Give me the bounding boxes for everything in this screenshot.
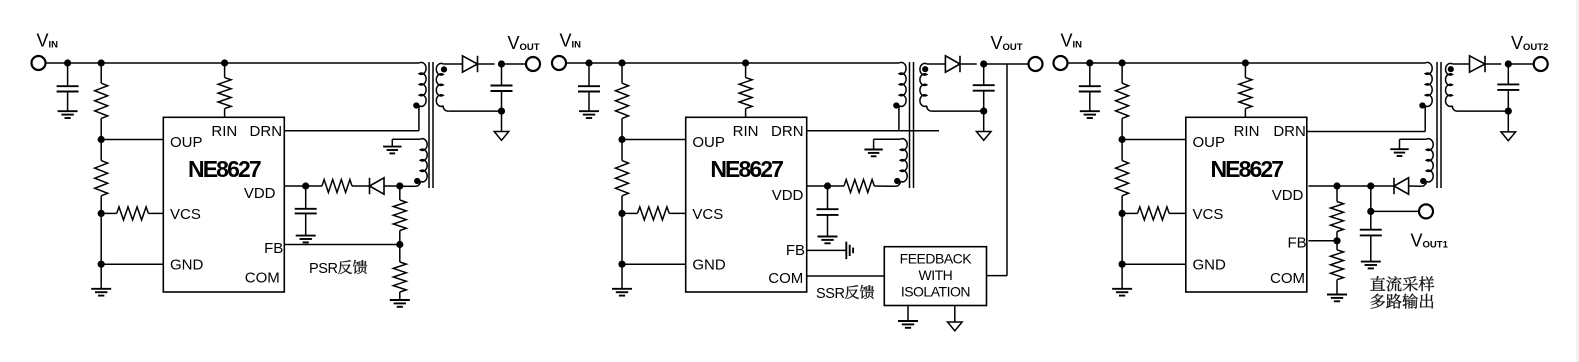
svg-text:VDD: VDD bbox=[244, 185, 276, 202]
svg-text:DRN: DRN bbox=[250, 123, 283, 140]
svg-text:VCS: VCS bbox=[1193, 206, 1224, 223]
svg-text:GND: GND bbox=[1193, 257, 1227, 274]
svg-text:RIN: RIN bbox=[733, 123, 759, 140]
svg-text:VDD: VDD bbox=[1272, 187, 1304, 204]
svg-text:RIN: RIN bbox=[211, 123, 237, 140]
svg-text:PSR: PSR bbox=[309, 261, 338, 277]
svg-text:FEEDBACK: FEEDBACK bbox=[900, 251, 973, 267]
svg-text:DRN: DRN bbox=[771, 123, 804, 140]
svg-text:GND: GND bbox=[692, 257, 726, 274]
svg-text:VCS: VCS bbox=[170, 206, 201, 223]
svg-text:WITH: WITH bbox=[919, 267, 953, 283]
svg-text:COM: COM bbox=[245, 270, 280, 287]
svg-text:FB: FB bbox=[786, 242, 805, 259]
svg-text:RIN: RIN bbox=[1234, 123, 1260, 140]
svg-text:OUP: OUP bbox=[170, 134, 203, 151]
svg-text:FB: FB bbox=[264, 240, 283, 257]
svg-text:OUP: OUP bbox=[692, 134, 725, 151]
svg-text:NE8627: NE8627 bbox=[188, 156, 261, 182]
svg-text:COM: COM bbox=[1270, 270, 1305, 287]
svg-text:ISOLATION: ISOLATION bbox=[901, 284, 970, 300]
svg-text:OUP: OUP bbox=[1193, 134, 1226, 151]
svg-text:DRN: DRN bbox=[1273, 123, 1306, 140]
svg-text:NE8627: NE8627 bbox=[710, 156, 783, 182]
svg-text:GND: GND bbox=[170, 257, 204, 274]
svg-text:VCS: VCS bbox=[692, 206, 723, 223]
svg-text:COM: COM bbox=[768, 270, 803, 287]
svg-text:FB: FB bbox=[1288, 234, 1307, 251]
svg-text:SSR: SSR bbox=[816, 286, 845, 302]
svg-text:VDD: VDD bbox=[772, 187, 804, 204]
svg-text:NE8627: NE8627 bbox=[1210, 156, 1283, 182]
